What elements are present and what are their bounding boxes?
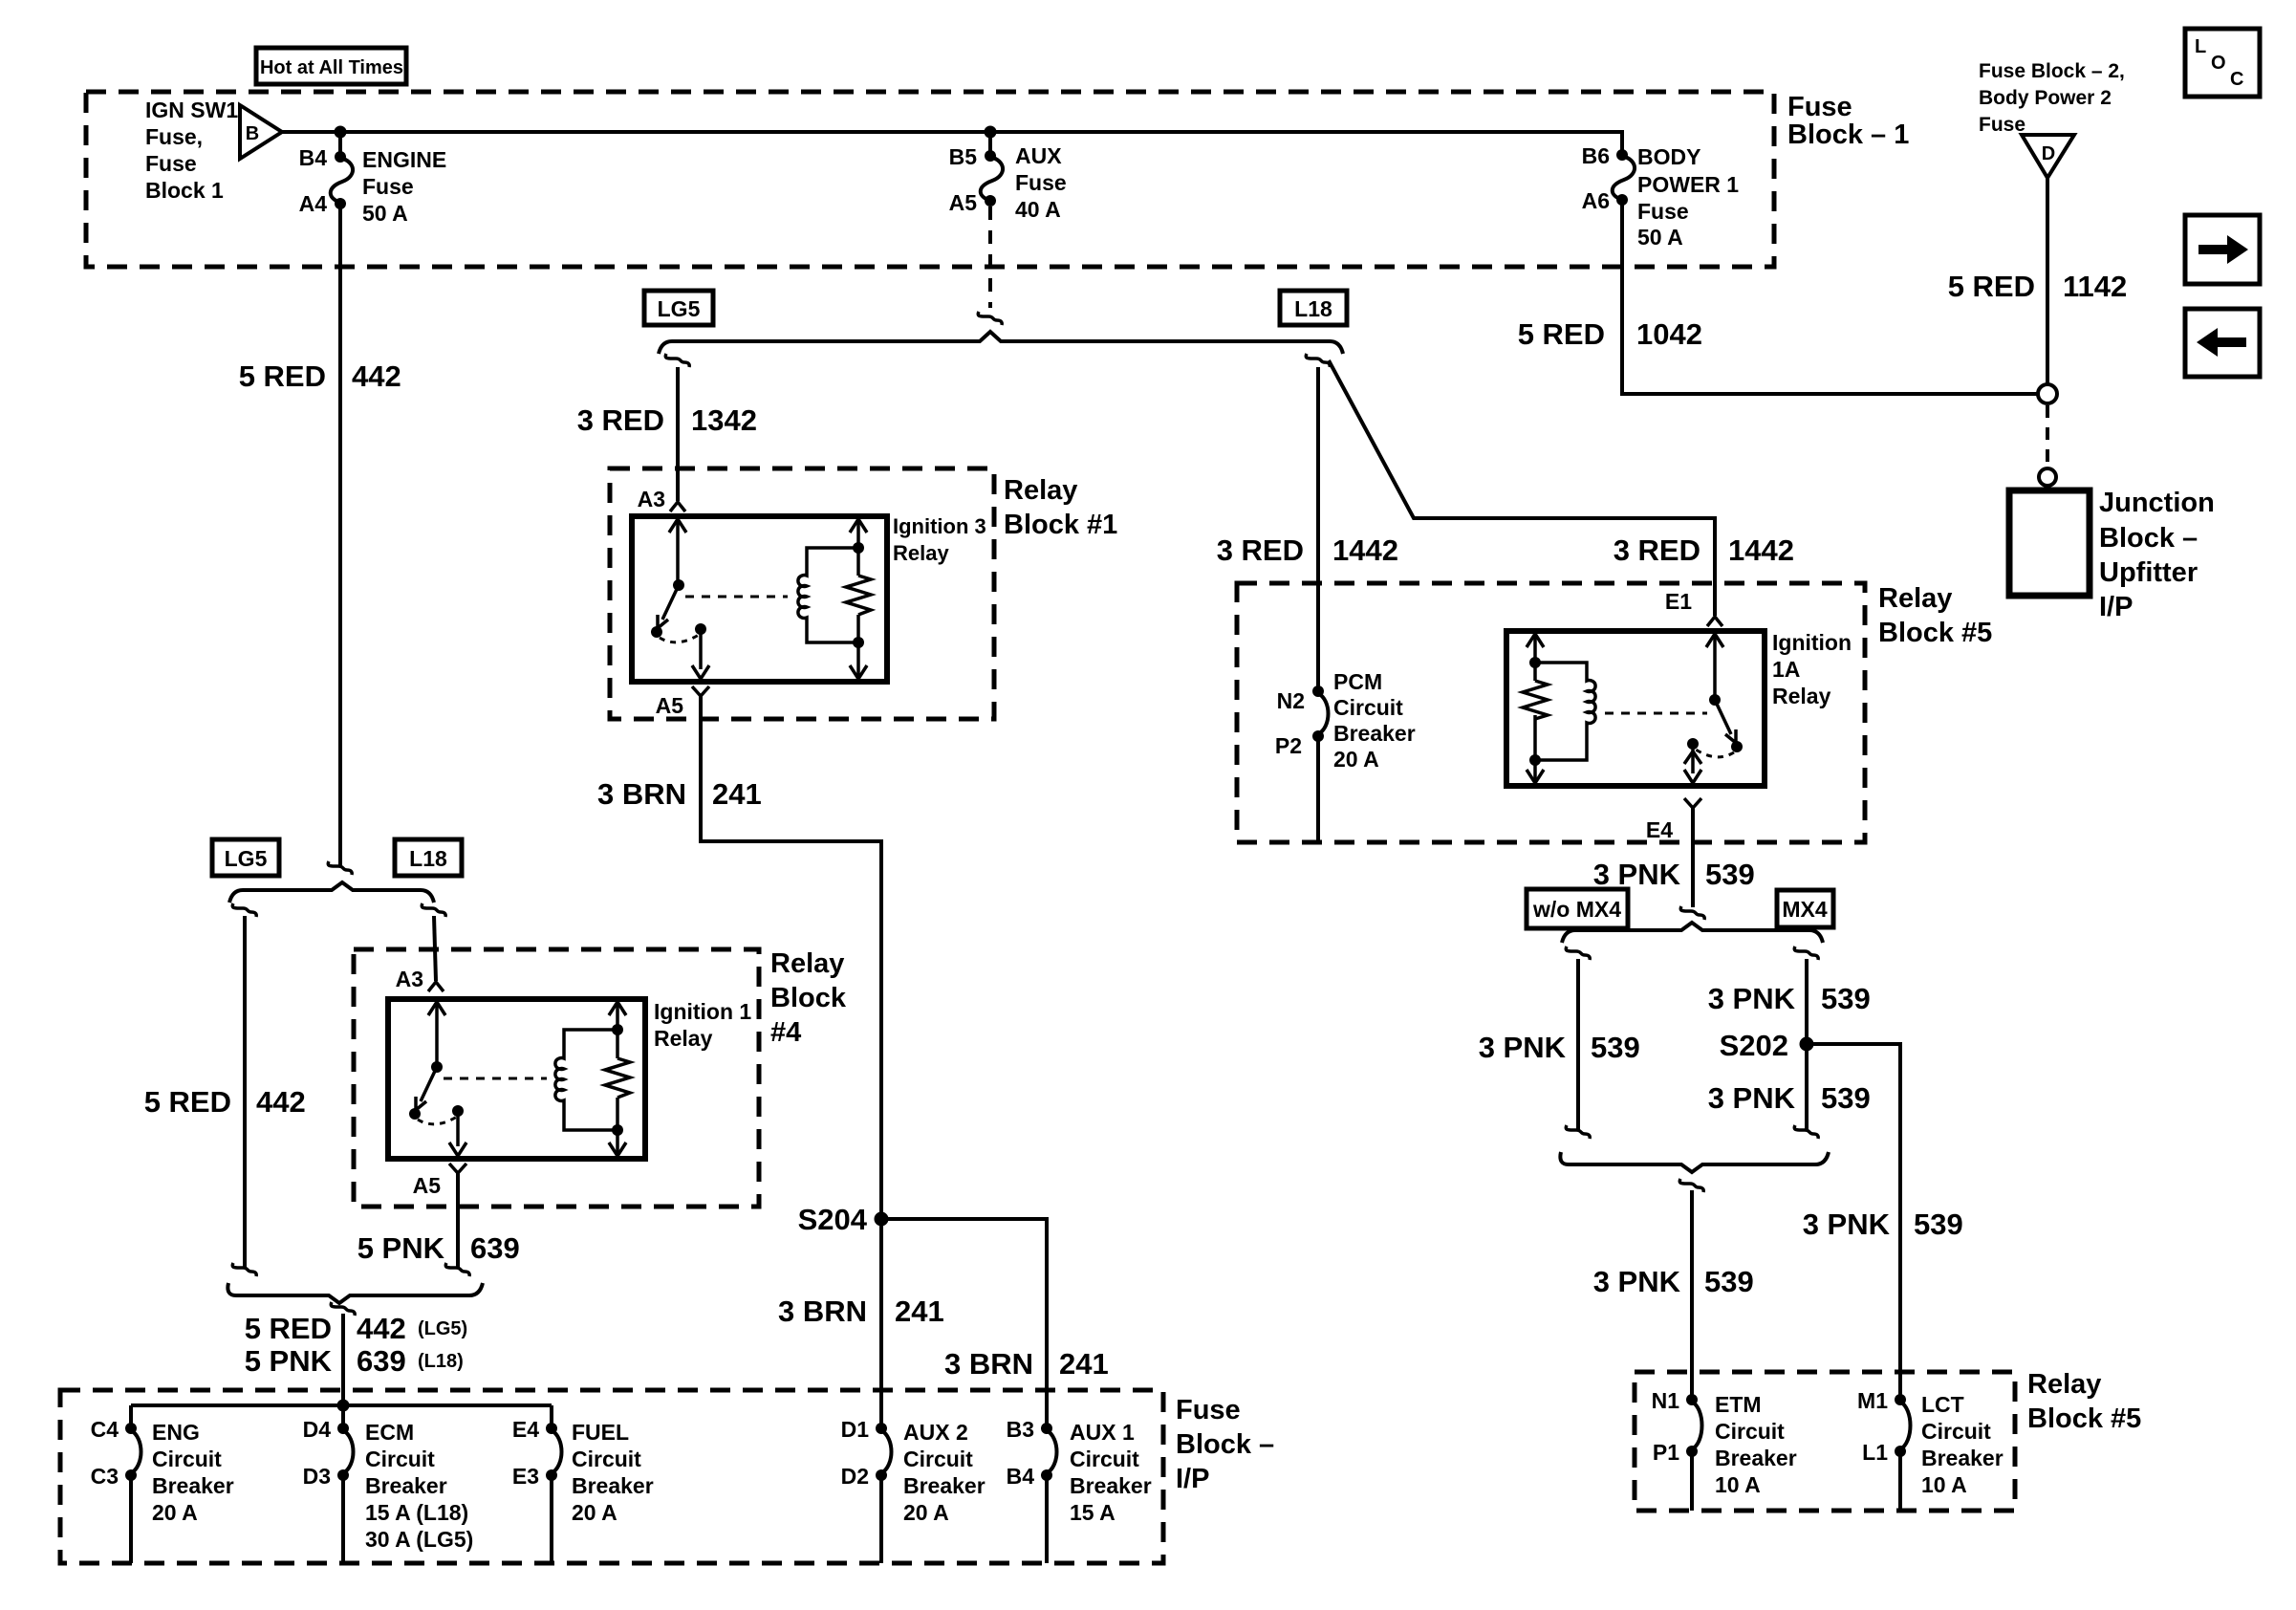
svg-text:B4: B4	[1007, 1464, 1035, 1489]
svg-text:539: 539	[1705, 858, 1755, 891]
ENG breaker text	[152, 1420, 234, 1525]
svg-text:Breaker: Breaker	[365, 1473, 447, 1498]
svg-text:ETM: ETM	[1715, 1392, 1762, 1417]
svg-text:5 RED: 5 RED	[144, 1085, 231, 1119]
svg-text:Circuit: Circuit	[572, 1447, 641, 1471]
relay 5 switch: output contact to E4	[1684, 738, 1701, 783]
PCM breaker text	[1333, 669, 1416, 772]
option brace: lower LG5/L18 split	[229, 882, 434, 903]
wire: LG5 lower branch (5 RED 442)	[243, 916, 247, 1268]
svg-text:w/o MX4: w/o MX4	[1532, 897, 1621, 922]
svg-text:LCT: LCT	[1921, 1392, 1964, 1417]
svg-text:5 RED: 5 RED	[1518, 317, 1605, 351]
svg-text:Fuse: Fuse	[1637, 199, 1689, 224]
svg-text:10 A: 10 A	[1921, 1472, 1967, 1497]
svg-text:Ignition 1: Ignition 1	[654, 999, 751, 1024]
relay 4 switch: input arrow and arm	[409, 1002, 445, 1120]
option brace: w/o MX4 / MX4 split	[1562, 923, 1823, 943]
svg-text:BODY: BODY	[1637, 144, 1700, 169]
wire: bus drop to C4	[129, 1405, 133, 1428]
option tag box LG5 (lower)	[212, 839, 279, 876]
svg-text:50 A: 50 A	[1637, 225, 1683, 250]
wire: bus drop to D4	[341, 1405, 345, 1428]
svg-text:1442: 1442	[1332, 533, 1398, 567]
relay 5 coil-resistor: left vertical with arrows	[1527, 634, 1544, 783]
relay: Ignition 1A Relay body	[1506, 631, 1765, 786]
svg-text:539: 539	[1914, 1207, 1963, 1241]
svg-text:Ignition 3: Ignition 3	[893, 514, 986, 538]
break symbol: LG5 branch top	[665, 354, 689, 367]
svg-text:3 BRN: 3 BRN	[944, 1347, 1033, 1381]
wire label 3 PNK 539 (ETM feed)	[1593, 1265, 1754, 1298]
svg-text:AUX: AUX	[1015, 143, 1062, 168]
break symbol: LG5 lower branch top	[232, 903, 256, 917]
break symbol: A4 feed end above lower LG5/L18 split	[328, 861, 352, 875]
splice S204	[875, 1212, 889, 1227]
svg-text:Circuit: Circuit	[1715, 1419, 1785, 1444]
wire label 3 RED 1442 (left)	[1217, 533, 1398, 567]
ignition 1A relay label	[1772, 630, 1852, 708]
relay 4 switch: NO contact dashed arc	[418, 1117, 457, 1124]
break symbol at A5 drop	[978, 312, 1002, 325]
LCT breaker text	[1921, 1392, 2004, 1497]
AUX fuse text	[1015, 143, 1067, 222]
inline connector Y at A5 of relay block 4	[449, 1164, 466, 1173]
svg-text:40 A: 40 A	[1015, 197, 1061, 222]
wire label 3 PNK 539 (E4)	[1593, 858, 1755, 891]
svg-text:Relay: Relay	[770, 948, 844, 979]
wire label 3 PNK 539 (LCT branch)	[1803, 1207, 1963, 1241]
svg-text:3 PNK: 3 PNK	[1593, 1265, 1681, 1298]
svg-text:Breaker: Breaker	[1070, 1473, 1152, 1498]
svg-text:10 A: 10 A	[1715, 1472, 1761, 1497]
svg-text:I/P: I/P	[2099, 592, 2133, 622]
svg-text:L1: L1	[1862, 1440, 1888, 1465]
BODY POWER 1 fuse text	[1637, 144, 1739, 250]
relay 1 switch: output contact to A5	[692, 623, 709, 679]
svg-text:1042: 1042	[1636, 317, 1702, 351]
svg-text:N2: N2	[1277, 688, 1305, 713]
svg-text:Circuit: Circuit	[903, 1447, 973, 1471]
node: tap to AUX fuse	[985, 126, 997, 139]
wire: A6 down then right to ring terminal	[1622, 200, 2038, 394]
wire: bus drop to E4	[550, 1405, 553, 1428]
svg-text:241: 241	[712, 777, 762, 811]
svg-text:Circuit: Circuit	[1333, 695, 1403, 720]
wire: relay4 A5 down (5 PNK 639)	[456, 1173, 460, 1268]
svg-text:Relay: Relay	[2027, 1369, 2101, 1400]
svg-text:639: 639	[357, 1344, 406, 1378]
wire label 3 RED 1442 (right)	[1614, 533, 1794, 567]
svg-text:3 BRN: 3 BRN	[778, 1295, 867, 1328]
wire: A5 dashed drop	[988, 207, 992, 308]
fuse: ENGINE Fuse 50 A (B4-A4)	[331, 151, 353, 209]
svg-text:Junction: Junction	[2099, 488, 2215, 518]
break symbol: E4 feed end	[1680, 906, 1704, 920]
svg-text:B5: B5	[949, 144, 978, 169]
wire: A4 down (5 RED 442)	[338, 204, 342, 866]
svg-text:15 A (L18): 15 A (L18)	[365, 1500, 468, 1525]
svg-text:Fuse: Fuse	[1787, 92, 1852, 122]
inline connector Y at A3 of relay block 4	[428, 982, 444, 991]
svg-text:5 PNK: 5 PNK	[357, 1231, 445, 1265]
svg-text:Circuit: Circuit	[152, 1447, 222, 1471]
wire: merged feed down to ETM breaker (3 PNK 539)	[1690, 1190, 1694, 1400]
svg-text:539: 539	[1821, 1081, 1871, 1115]
svg-text:241: 241	[1059, 1347, 1109, 1381]
merge brace above fuse block ip feed	[227, 1283, 483, 1303]
wire: bus to B5	[988, 132, 992, 156]
svg-text:Relay: Relay	[1004, 475, 1077, 506]
break symbol: L18 branch top	[1306, 354, 1330, 367]
junction block label	[2099, 488, 2215, 622]
svg-text:N1: N1	[1652, 1388, 1680, 1413]
svg-text:Block – 1: Block – 1	[1787, 120, 1909, 150]
wire: E4 down (3 PNK 539)	[1691, 808, 1695, 907]
svg-text:E1: E1	[1665, 589, 1692, 614]
option brace: LG5/L18 split of AUX feed	[659, 332, 1343, 354]
power triangle B	[240, 105, 282, 159]
relay block 5 name label	[1878, 583, 1992, 648]
relay 1 coil	[798, 548, 858, 642]
svg-text:P2: P2	[1275, 733, 1302, 758]
LOC legend box	[2185, 29, 2260, 97]
wire: LG5 branch down (3 RED 1342)	[676, 367, 680, 501]
wire: MX4 branch through S202	[1805, 959, 1809, 1130]
svg-text:Ignition: Ignition	[1772, 630, 1852, 655]
AUX 2 breaker text	[903, 1420, 986, 1525]
svg-text:Fuse,: Fuse,	[145, 124, 203, 149]
svg-text:B4: B4	[299, 145, 328, 170]
legend box: arrow right	[2185, 215, 2260, 284]
svg-text:Block #5: Block #5	[1878, 618, 1992, 648]
option tag box L18 (upper)	[1280, 291, 1347, 325]
svg-text:5 RED: 5 RED	[239, 359, 326, 393]
wire label 3 PNK 539 (MX4 below S202)	[1708, 1081, 1871, 1115]
svg-text:IGN SW1: IGN SW1	[145, 98, 238, 122]
wire label 3 BRN 241 (S204 down)	[778, 1295, 944, 1328]
svg-text:Fuse Block – 2,: Fuse Block – 2,	[1979, 60, 2125, 82]
inline connector Y at A5 of relay block 1	[692, 686, 709, 696]
circuit breaker: ETM 10 A (N1-P1)	[1686, 1394, 1702, 1511]
circuit breaker: AUX 1 15 A (B3-B4)	[1041, 1423, 1057, 1563]
wire: S204 down to AUX2 breaker (3 BRN 241)	[879, 1219, 883, 1428]
relay 5 coil	[1535, 663, 1595, 760]
relay 5 actuator dashed link	[1605, 712, 1707, 715]
relay block 4 dashed outline	[354, 949, 759, 1207]
svg-text:Breaker: Breaker	[572, 1473, 654, 1498]
wire: L18 branch down to PCM breaker (3 RED 1442)	[1316, 367, 1320, 691]
option tag box L18 (lower)	[395, 839, 462, 876]
svg-text:FUEL: FUEL	[572, 1420, 629, 1445]
svg-text:D3: D3	[303, 1464, 331, 1489]
break symbol: ETM feed top	[1679, 1179, 1703, 1192]
wire: diagonal from L18 split to E1	[1329, 360, 1715, 616]
svg-text:Breaker: Breaker	[1715, 1446, 1797, 1470]
svg-text:539: 539	[1821, 982, 1871, 1015]
svg-text:AUX 1: AUX 1	[1070, 1420, 1135, 1445]
fuse block 1 dashed outline	[86, 92, 1774, 267]
svg-text:AUX 2: AUX 2	[903, 1420, 968, 1445]
svg-text:539: 539	[1704, 1265, 1754, 1298]
svg-text:#4: #4	[770, 1017, 801, 1048]
legend box: arrow left	[2185, 309, 2260, 377]
svg-text:Relay: Relay	[1772, 684, 1831, 708]
svg-text:Block 1: Block 1	[145, 178, 224, 203]
svg-text:MX4: MX4	[1782, 897, 1828, 922]
svg-text:Circuit: Circuit	[365, 1447, 435, 1471]
svg-text:L: L	[2195, 36, 2206, 57]
relay 4 switch: output contact to A5	[449, 1105, 466, 1156]
ignition 1 relay label	[654, 999, 751, 1051]
wire: D triangle down to ring (5 RED 1142)	[2046, 178, 2049, 383]
wire label 5 PNK 639 (L18)	[245, 1344, 464, 1378]
svg-text:Block #1: Block #1	[1004, 510, 1117, 540]
inline connector Y at E4 of relay block 5	[1684, 798, 1701, 808]
svg-text:P1: P1	[1653, 1440, 1679, 1465]
svg-text:3 BRN: 3 BRN	[597, 777, 686, 811]
ECM breaker text	[365, 1420, 473, 1552]
svg-text:Hot at All Times: Hot at All Times	[260, 57, 403, 78]
svg-text:Upfitter: Upfitter	[2099, 557, 2198, 588]
break symbol: MX4 branch bottom	[1794, 1125, 1818, 1139]
wire label 5 RED 1142	[1948, 270, 2128, 303]
svg-text:1442: 1442	[1728, 533, 1794, 567]
wire label 3 PNK 539 (MX4 above S202)	[1708, 982, 1871, 1015]
merge brace: MX4 options to ETM feed	[1560, 1152, 1829, 1172]
svg-text:Breaker: Breaker	[1333, 721, 1416, 746]
wire label 5 PNK 639	[357, 1231, 520, 1265]
svg-text:ENGINE: ENGINE	[362, 147, 446, 172]
svg-text:Breaker: Breaker	[152, 1473, 234, 1498]
svg-text:I/P: I/P	[1176, 1464, 1209, 1494]
wire: merged feed into fuse block ip	[341, 1314, 345, 1405]
svg-text:15 A: 15 A	[1070, 1500, 1116, 1525]
svg-text:639: 639	[470, 1231, 520, 1265]
option tag box LG5 (upper)	[644, 291, 713, 325]
svg-text:Block –: Block –	[2099, 523, 2198, 554]
node: feed joins fuse block bus	[337, 1400, 350, 1412]
junction block upfitter box	[2009, 490, 2090, 596]
svg-text:S202: S202	[1720, 1029, 1788, 1062]
option tag box MX4	[1777, 890, 1833, 927]
break symbol: L18 lower branch top	[422, 903, 445, 917]
svg-text:5 RED: 5 RED	[245, 1312, 332, 1345]
svg-text:Block: Block	[770, 983, 847, 1013]
fuse: BODY POWER 1 Fuse 50 A (B6-A6)	[1613, 149, 1635, 206]
ETM breaker text	[1715, 1392, 1797, 1497]
circuit breaker: LCT 10 A (M1-L1)	[1895, 1394, 1911, 1511]
relay 5 resistor zigzag	[1523, 681, 1548, 719]
wire: main bus corner down to B6	[1620, 130, 1624, 155]
svg-text:1342: 1342	[691, 403, 757, 437]
splice S202	[1800, 1037, 1814, 1052]
wire label 3 BRN 241 (AUX1 branch)	[944, 1347, 1109, 1381]
relay 1 switch: input arrow and arm	[651, 519, 686, 638]
svg-text:Block #5: Block #5	[2027, 1403, 2141, 1434]
svg-text:Fuse: Fuse	[1015, 170, 1067, 195]
svg-text:5 RED: 5 RED	[1948, 270, 2035, 303]
svg-text:D2: D2	[841, 1464, 869, 1489]
svg-text:C4: C4	[91, 1417, 119, 1442]
break symbol: merged feed top	[331, 1302, 355, 1316]
wire label 3 RED 1342	[577, 403, 757, 437]
svg-text:B6: B6	[1582, 143, 1610, 168]
svg-text:Fuse: Fuse	[1979, 114, 2025, 136]
svg-text:A4: A4	[299, 191, 328, 216]
wire label 3 BRN 241 (relay1 A5)	[597, 777, 762, 811]
svg-text:3 PNK: 3 PNK	[1708, 982, 1796, 1015]
svg-text:E3: E3	[512, 1464, 539, 1489]
svg-text:B3: B3	[1007, 1417, 1034, 1442]
ring terminal at junction of 1042/1142	[2038, 384, 2057, 403]
break symbol: LG5 lower branch bottom	[232, 1263, 256, 1276]
wire: fuse block ip bus	[131, 1403, 552, 1407]
svg-text:Relay: Relay	[893, 541, 949, 565]
svg-text:Relay: Relay	[1878, 583, 1952, 614]
relay 4 coil-resistor: right vertical with arrows	[609, 1002, 626, 1156]
fuse block 1 name label	[1787, 92, 1909, 150]
svg-text:1142: 1142	[2063, 270, 2127, 303]
wire: L18 lower branch to relay4 A3	[434, 916, 436, 981]
svg-text:3 PNK: 3 PNK	[1593, 858, 1681, 891]
svg-text:A6: A6	[1582, 188, 1610, 213]
wire: S204 right branch to AUX1 breaker	[881, 1219, 1047, 1428]
relay block 5 lower dashed outline	[1635, 1372, 2015, 1511]
IGN SW1 feed label	[145, 98, 238, 203]
svg-text:L18: L18	[1294, 296, 1332, 321]
relay 1 actuator dashed link	[685, 596, 788, 598]
wire label 5 RED 442	[239, 359, 401, 393]
dashed wire to junction block	[2046, 405, 2049, 467]
wire: bus to B4	[338, 132, 342, 157]
svg-text:A5: A5	[413, 1173, 442, 1198]
relay 4 resistor zigzag	[605, 1058, 630, 1098]
relay block 1 dashed outline	[610, 468, 994, 719]
relay block 4 name label	[770, 948, 847, 1048]
fuse block 2 feed label	[1979, 60, 2125, 136]
svg-text:20 A: 20 A	[572, 1500, 617, 1525]
svg-text:Fuse: Fuse	[362, 174, 414, 199]
relay 1 switch: NO contact dashed arc	[660, 635, 699, 642]
AUX 1 breaker text	[1070, 1420, 1152, 1525]
svg-text:30 A (LG5): 30 A (LG5)	[365, 1527, 473, 1552]
svg-text:A5: A5	[656, 693, 684, 718]
node: tap to ENGINE fuse	[335, 126, 347, 139]
svg-text:D1: D1	[841, 1417, 870, 1442]
svg-text:Block –: Block –	[1176, 1429, 1274, 1460]
svg-text:20 A: 20 A	[903, 1500, 949, 1525]
svg-text:3 RED: 3 RED	[1217, 533, 1304, 567]
relay block 1 name label	[1004, 475, 1117, 540]
circuit breaker: ECM 15/30 A (D4-D3)	[337, 1423, 354, 1563]
fuse block I/P name label	[1176, 1395, 1274, 1494]
svg-text:L18: L18	[409, 846, 447, 871]
relay 4 actuator dashed link	[444, 1077, 547, 1080]
svg-text:(LG5): (LG5)	[418, 1318, 467, 1339]
svg-text:539: 539	[1591, 1031, 1640, 1064]
svg-text:ECM: ECM	[365, 1420, 414, 1445]
break symbol: w/o MX4 branch bottom	[1566, 1125, 1590, 1139]
circuit breaker: ENG 20 A (C4-C3)	[125, 1423, 141, 1563]
svg-text:Fuse: Fuse	[1176, 1395, 1241, 1425]
svg-text:50 A: 50 A	[362, 201, 408, 226]
svg-text:E4: E4	[1646, 817, 1673, 842]
svg-text:Breaker: Breaker	[903, 1473, 986, 1498]
svg-text:LG5: LG5	[658, 296, 701, 321]
svg-text:442: 442	[352, 359, 401, 393]
relay block 5 lower name label	[2027, 1369, 2141, 1434]
option tag box w/o MX4	[1527, 889, 1628, 928]
break symbol: MX4 branch top	[1794, 946, 1818, 960]
wire: relay1 A5 down (3 BRN 241)	[701, 696, 881, 1212]
svg-text:POWER 1: POWER 1	[1637, 172, 1739, 197]
svg-text:3 PNK: 3 PNK	[1803, 1207, 1891, 1241]
svg-text:D: D	[2042, 143, 2055, 164]
svg-text:20 A: 20 A	[152, 1500, 198, 1525]
ring terminal at junction block	[2039, 468, 2056, 486]
circuit breaker: AUX 2 20 A (D1-D2)	[876, 1423, 892, 1563]
svg-text:A3: A3	[638, 487, 665, 511]
svg-text:C: C	[2230, 69, 2243, 90]
svg-text:Fuse: Fuse	[145, 151, 197, 176]
fuse block I/P dashed outline	[60, 1390, 1163, 1563]
relay block 5 dashed outline	[1237, 583, 1865, 842]
ignition 3 relay label	[893, 514, 986, 565]
svg-text:Circuit: Circuit	[1921, 1419, 1991, 1444]
svg-text:C3: C3	[91, 1464, 119, 1489]
svg-text:E4: E4	[512, 1417, 539, 1442]
relay: Ignition 3 Relay body	[632, 516, 887, 682]
wire: w/o MX4 branch (3 PNK 539)	[1576, 959, 1580, 1130]
wire label 5 RED 442 (lower)	[144, 1085, 306, 1119]
wire label 5 RED 1042	[1518, 317, 1702, 351]
svg-text:S204: S204	[798, 1203, 868, 1236]
svg-text:A3: A3	[396, 967, 423, 991]
circuit breaker: FUEL 20 A (E4-E3)	[546, 1423, 562, 1563]
wire label 3 PNK 539 (w/o MX4)	[1479, 1031, 1640, 1064]
relay 4 coil	[555, 1030, 617, 1130]
svg-text:3 PNK: 3 PNK	[1708, 1081, 1796, 1115]
svg-text:5 PNK: 5 PNK	[245, 1344, 333, 1378]
inline connector Y at A3 of relay block 1	[670, 502, 685, 511]
hot-at-all-times label box	[256, 48, 406, 84]
relay 5 switch: NO contact dashed arc	[1696, 750, 1734, 757]
circuit breaker: PCM 20 A (N2-P2)	[1312, 685, 1329, 842]
svg-text:A5: A5	[949, 190, 978, 215]
wire: S202 branch right to LCT breaker	[1807, 1044, 1900, 1396]
wire label 5 RED 442 (LG5)	[245, 1312, 468, 1345]
svg-text:1A: 1A	[1772, 657, 1800, 682]
relay 5 switch: input arrow and arm	[1706, 634, 1743, 752]
svg-text:LG5: LG5	[225, 846, 268, 871]
svg-text:PCM: PCM	[1333, 669, 1382, 694]
svg-text:B: B	[246, 123, 259, 144]
svg-text:(L18): (L18)	[418, 1351, 464, 1372]
relay 1 resistor zigzag	[846, 576, 871, 615]
relay: Ignition 1 Relay body	[388, 999, 645, 1159]
svg-text:Relay: Relay	[654, 1026, 713, 1051]
inline connector Y at E1 of relay block 5	[1707, 617, 1722, 626]
svg-text:ENG: ENG	[152, 1420, 200, 1445]
svg-text:3 RED: 3 RED	[577, 403, 664, 437]
svg-text:Circuit: Circuit	[1070, 1447, 1139, 1471]
ENGINE fuse text	[362, 147, 446, 226]
svg-text:Breaker: Breaker	[1921, 1446, 2004, 1470]
FUEL breaker text	[572, 1420, 654, 1525]
svg-text:241: 241	[895, 1295, 944, 1328]
break symbol: L18 lower branch bottom	[445, 1263, 469, 1276]
